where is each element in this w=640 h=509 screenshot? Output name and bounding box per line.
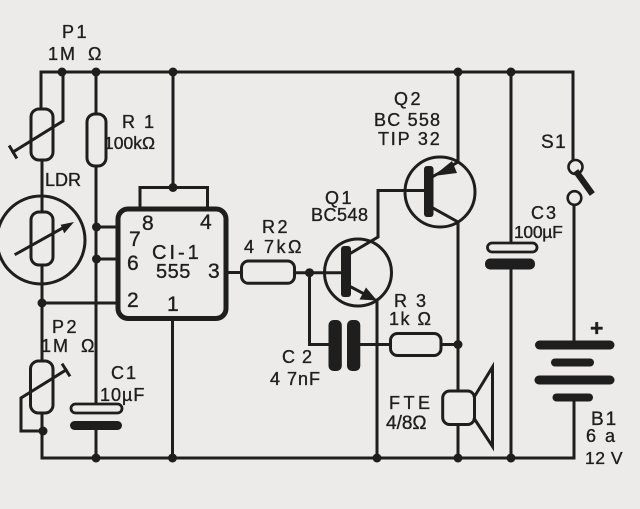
node C1 ground (92, 454, 101, 463)
wire collector node to speaker (457, 345, 460, 392)
wire P1 wiper tick (10, 147, 16, 157)
wire Q2 collector (433, 208, 458, 345)
capacitor C2 (329, 320, 342, 371)
svg-text:R2: R2 (262, 217, 290, 237)
node pin6 tap (92, 255, 101, 264)
capacitor C3 (488, 243, 538, 252)
svg-text:+: + (590, 315, 605, 341)
node pin1 ground (168, 454, 177, 463)
svg-text:3: 3 (208, 260, 222, 283)
svg-text:4 7nF: 4 7nF (270, 369, 321, 389)
svg-text:Q2: Q2 (394, 89, 423, 109)
wire Q1 emitter to ground (376, 300, 379, 458)
battery B1 (535, 341, 615, 350)
svg-text:FTE: FTE (389, 393, 434, 413)
svg-text:2: 2 (127, 289, 141, 312)
svg-text:8: 8 (142, 212, 156, 235)
svg-text:BC548: BC548 (311, 205, 369, 225)
svg-text:4/8Ω: 4/8Ω (386, 413, 427, 434)
wire to 555 pin 6 (97, 258, 119, 261)
wire C1 to ground rail (95, 430, 98, 458)
node speaker ground (454, 454, 463, 463)
svg-text:1M Ω: 1M Ω (48, 44, 103, 64)
wire bottom ground rail (42, 401, 574, 458)
wire Q1 collector (351, 191, 424, 254)
svg-text:6: 6 (127, 252, 141, 275)
node P2 wiper to bottom terminal (39, 427, 48, 436)
potentiometer P2 (31, 361, 54, 413)
resistor R3 (391, 334, 442, 356)
node Q1 emitter ground (373, 454, 382, 463)
transistor Q1 BC548 (325, 239, 392, 306)
wire top supply rail (41, 72, 573, 160)
svg-text:R 3: R 3 (394, 291, 428, 311)
wire rail to C3 (510, 72, 513, 243)
node R3/speaker junction (454, 340, 463, 349)
capacitor C1 (71, 404, 122, 413)
op-amp U1 555 timer box CI-1 (118, 209, 226, 319)
svg-text:4: 4 (200, 211, 214, 234)
wire P1 wiper arm (13, 72, 63, 152)
LDR (0, 196, 85, 284)
svg-text:C1: C1 (111, 363, 138, 383)
wire C2 to R3 (360, 343, 390, 346)
svg-text:S1: S1 (541, 132, 567, 153)
svg-text:TIP 32: TIP 32 (378, 129, 442, 149)
svg-text:C3: C3 (531, 203, 558, 223)
svg-text:1: 1 (167, 293, 181, 316)
svg-text:555: 555 (156, 261, 191, 283)
wire supply to pins 8 and 4 (172, 72, 175, 188)
node P1 wiper to rail (58, 68, 67, 77)
wire 555 pin 3 to R2 (226, 271, 242, 274)
wire speaker to ground (457, 425, 460, 459)
svg-text:LDR: LDR (45, 170, 81, 190)
wire S1 to battery (573, 205, 576, 341)
svg-text:6 a: 6 a (586, 426, 617, 446)
svg-text:BC 558: BC 558 (374, 110, 441, 130)
wire node down to C2 (310, 273, 329, 345)
svg-text:100µF: 100µF (514, 222, 562, 242)
wire to 555 pin 7 (97, 226, 119, 229)
wire Q2 emitter to rail (433, 72, 458, 177)
node pin7 tap (92, 223, 101, 232)
svg-text:10µF: 10µF (100, 385, 145, 405)
wire LDR arrow (16, 225, 68, 254)
node Q2 emitter rail (454, 68, 463, 77)
wire rail to R1 (95, 72, 98, 114)
svg-text:P2: P2 (52, 317, 79, 337)
resistor R1 (87, 114, 106, 166)
speaker FTE (443, 391, 475, 425)
svg-text:R 1: R 1 (122, 112, 156, 132)
wire S1 lever (578, 174, 591, 192)
svg-text:P1: P1 (62, 22, 89, 42)
wire R2 to Q1 base (295, 271, 342, 274)
wire node to 555 pin 2 (42, 302, 118, 305)
node supply tap for 555 (169, 68, 178, 77)
svg-text:1k Ω: 1k Ω (389, 309, 432, 329)
node C3 rail tap (507, 68, 516, 77)
switch S1 (569, 160, 583, 174)
resistor R2 (242, 261, 295, 283)
svg-text:7: 7 (129, 228, 143, 251)
wire LDR to node (41, 265, 44, 361)
svg-text:C 2: C 2 (282, 347, 313, 367)
node R2/C2 junction (305, 268, 314, 277)
node LDR/P2/pin2 (38, 299, 47, 308)
wire P2 wiper tick (63, 365, 69, 375)
wire P2 wiper arm (21, 370, 66, 431)
wire Q1 emitter (351, 287, 370, 297)
wire 555 pin 1 to ground (171, 319, 174, 459)
wire R1 to C1 (95, 166, 98, 404)
potentiometer P1 (31, 109, 53, 160)
node C3 ground (507, 454, 516, 463)
node R1 top on rail (92, 68, 101, 77)
wire C3 to ground (510, 270, 513, 459)
svg-text:12 V: 12 V (585, 448, 623, 468)
svg-text:4 7kΩ: 4 7kΩ (244, 237, 304, 257)
wire P1 to LDR (41, 160, 44, 212)
svg-text:100kΩ: 100kΩ (104, 133, 155, 153)
wire R3 to Q2 collector line (441, 343, 458, 346)
svg-text:1M Ω: 1M Ω (41, 336, 96, 356)
transistor Q2 BC558 TIP32 (405, 157, 475, 227)
